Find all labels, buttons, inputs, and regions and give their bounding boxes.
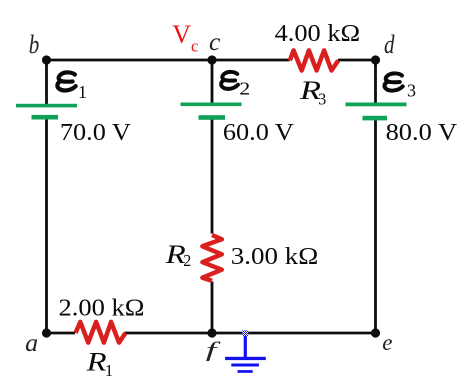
node f (junction dot)	[207, 328, 216, 337]
svg-text:60.0 V: 60.0 V	[223, 120, 295, 146]
svg-text:80.0 V: 80.0 V	[386, 120, 458, 146]
wire R1 right lead to f (bottom rail)	[125, 332, 212, 335]
svg-text:2: 2	[239, 79, 250, 99]
wire battery E3 bottom plate to e (right rail lower)	[374, 118, 377, 333]
svg-text:R: R	[85, 347, 106, 376]
battery E1	[16, 104, 77, 120]
svg-text:3: 3	[318, 89, 326, 108]
battery E3	[346, 103, 407, 121]
wire a to R1 left lead (bottom rail)	[47, 332, 76, 335]
resistor R3	[290, 50, 338, 70]
wire c to battery E2 top plate (middle rail upper)	[211, 60, 214, 104]
svg-text:4.00 kΩ: 4.00 kΩ	[275, 21, 361, 47]
wire battery E1 bottom plate to a (left rail lower)	[45, 117, 48, 333]
wire b-c (top rail, left segment)	[47, 59, 213, 62]
svg-text:2.00 kΩ: 2.00 kΩ	[59, 295, 145, 321]
label R1	[85, 347, 113, 380]
node d (junction dot)	[371, 55, 380, 64]
node e (junction dot)	[371, 328, 380, 337]
wire battery E2 bottom plate to R2 top (middle rail)	[211, 117, 214, 234]
svg-text:c: c	[209, 27, 221, 56]
svg-text:3: 3	[407, 81, 416, 101]
label E2	[221, 72, 250, 99]
wire b to battery E1 top plate (left rail upper)	[45, 60, 48, 105]
svg-text:70.0 V: 70.0 V	[60, 120, 132, 146]
svg-text:1: 1	[105, 361, 114, 380]
node b (junction dot)	[42, 55, 51, 64]
wire d to battery E3 top plate (right rail upper)	[374, 60, 377, 104]
svg-text:d: d	[384, 30, 395, 59]
node c (junction dot)	[207, 55, 216, 64]
svg-text:f: f	[206, 338, 222, 362]
resistor R1	[76, 322, 126, 343]
resistor R2	[202, 235, 221, 281]
wire R3 right lead to d (top rail)	[338, 59, 376, 62]
label E3	[385, 73, 416, 100]
label Vc (node voltage at c)	[172, 20, 198, 55]
wire c to R3 left lead (top rail)	[212, 59, 290, 62]
svg-text:a: a	[25, 330, 38, 357]
svg-text:b: b	[29, 30, 40, 59]
svg-text:1: 1	[78, 82, 87, 102]
svg-text:3.00 kΩ: 3.00 kΩ	[231, 244, 318, 270]
label R3	[299, 76, 327, 108]
wire f-e (bottom rail, right segment)	[212, 332, 376, 335]
svg-text:c: c	[191, 36, 198, 55]
svg-text:2: 2	[183, 251, 191, 270]
node a (junction dot)	[42, 328, 51, 337]
battery E2	[181, 103, 242, 120]
label E1	[57, 72, 87, 102]
wire R2 bottom to f (middle rail lower)	[211, 282, 214, 334]
label R2	[165, 240, 192, 270]
svg-text:e: e	[382, 330, 392, 355]
ground	[225, 330, 266, 373]
svg-text:V: V	[172, 20, 191, 49]
